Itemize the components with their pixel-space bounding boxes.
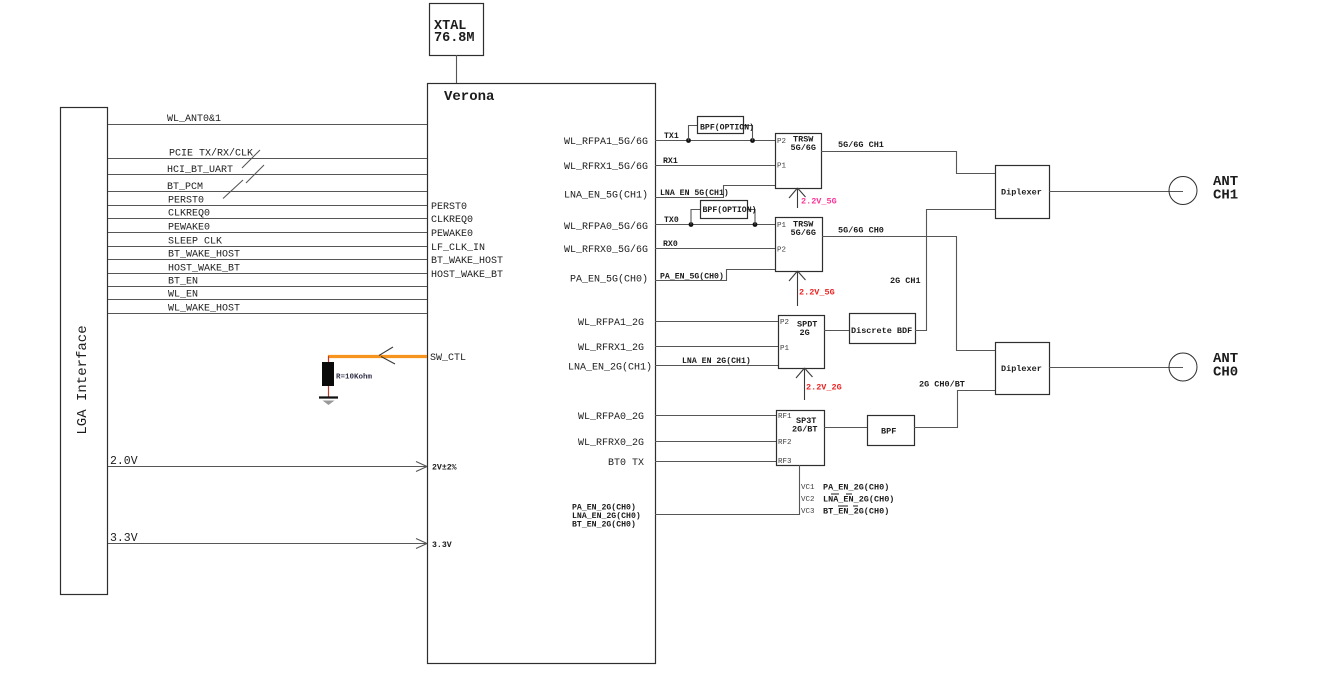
wire BPF option 1 right stub bbox=[744, 126, 753, 141]
svg-text:PEWAKE0: PEWAKE0 bbox=[431, 229, 473, 240]
wire LNA EN 5G(CH1) bbox=[655, 186, 775, 199]
ground GND bbox=[319, 398, 338, 406]
svg-text:P1: P1 bbox=[777, 163, 787, 171]
junction dot TX1 a bbox=[686, 138, 691, 143]
svg-text:PEWAKE0: PEWAKE0 bbox=[168, 223, 210, 234]
svg-text:BT_EN_2G(CH0): BT_EN_2G(CH0) bbox=[823, 507, 889, 517]
svg-text:WL_RFRX1_5G/6G: WL_RFRX1_5G/6G bbox=[564, 161, 648, 173]
svg-text:LNA_EN_2G(CH1): LNA_EN_2G(CH1) bbox=[568, 362, 652, 374]
pin label PA_EN_2G(CH0) group bbox=[572, 503, 641, 530]
wire 2G CH0/BT bbox=[914, 380, 995, 428]
junction dot TX0 a bbox=[689, 222, 694, 227]
svg-text:HOST_WAKE_BT: HOST_WAKE_BT bbox=[431, 270, 503, 281]
wire CLKREQ0 bbox=[108, 209, 427, 220]
antenna port ANT CH0 bbox=[1169, 351, 1238, 381]
svg-text:BT_EN: BT_EN bbox=[168, 277, 198, 288]
wire SP3T to BPF bbox=[824, 427, 867, 429]
wire SLEEP CLK bbox=[108, 237, 427, 248]
wire BT0 TX bbox=[655, 461, 776, 463]
wire 2G CH1 bbox=[890, 210, 995, 331]
resistor R1 10Kohm bbox=[322, 356, 373, 397]
svg-text:2G CH1: 2G CH1 bbox=[890, 276, 921, 286]
svg-text:LNA EN 5G(CH1): LNA EN 5G(CH1) bbox=[660, 188, 729, 198]
svg-text:BT_PCM: BT_PCM bbox=[167, 182, 203, 193]
svg-text:SLEEP CLK: SLEEP CLK bbox=[168, 237, 222, 248]
svg-text:HOST_WAKE_BT: HOST_WAKE_BT bbox=[168, 264, 240, 275]
filter FL2 BPF(OPTION) bbox=[701, 201, 757, 219]
svg-text:2.2V_5G: 2.2V_5G bbox=[801, 197, 837, 207]
svg-text:VC3: VC3 bbox=[801, 508, 815, 516]
wire 2.0V rail bbox=[108, 455, 457, 473]
wire PEWAKE0 bbox=[108, 223, 427, 234]
svg-text:BT_WAKE_HOST: BT_WAKE_HOST bbox=[168, 250, 240, 261]
svg-text:RX0: RX0 bbox=[663, 240, 678, 249]
svg-text:WL_RFPA0_2G: WL_RFPA0_2G bbox=[578, 412, 644, 423]
svg-text:P1: P1 bbox=[780, 345, 790, 353]
wire Diplexer ch1 to ANT CH1 bbox=[1049, 191, 1183, 193]
svg-text:BPF: BPF bbox=[881, 427, 896, 437]
svg-text:WL_EN: WL_EN bbox=[168, 290, 198, 301]
wire BT_WAKE_HOST bbox=[108, 250, 427, 261]
wire VC bundle bbox=[655, 465, 800, 515]
svg-text:TX1: TX1 bbox=[664, 132, 679, 141]
wire WL_RFPA1_2G bbox=[655, 321, 778, 323]
svg-text:WL_WAKE_HOST: WL_WAKE_HOST bbox=[168, 304, 240, 315]
wire 5G/6G CH0 bbox=[822, 226, 995, 351]
chip U1 Verona bbox=[428, 84, 656, 664]
svg-text:WL_RFPA1_2G: WL_RFPA1_2G bbox=[578, 318, 644, 329]
filter U7 Diplexer ch0 bbox=[996, 343, 1050, 395]
svg-text:2G/BT: 2G/BT bbox=[792, 425, 818, 435]
svg-text:WL_RFRX1_2G: WL_RFRX1_2G bbox=[578, 343, 644, 354]
svg-text:P2: P2 bbox=[777, 138, 786, 146]
svg-text:LNA_EN_2G(CH0): LNA_EN_2G(CH0) bbox=[572, 511, 641, 521]
wire TX0 bbox=[655, 216, 775, 225]
svg-text:P2: P2 bbox=[777, 247, 786, 255]
svg-text:2.2V_2G: 2.2V_2G bbox=[806, 383, 842, 393]
svg-text:LNA_EN_2G(CH0): LNA_EN_2G(CH0) bbox=[823, 495, 894, 505]
svg-text:PCIE TX/RX/CLK: PCIE TX/RX/CLK bbox=[169, 148, 253, 160]
svg-text:WL_ANT0&1: WL_ANT0&1 bbox=[167, 114, 221, 125]
svg-text:HCI_BT_UART: HCI_BT_UART bbox=[167, 165, 233, 176]
wire WL_RFRX0_2G bbox=[655, 441, 776, 443]
svg-text:5G/6G: 5G/6G bbox=[791, 143, 817, 153]
supply arrow 2.2V_5G ch0 bbox=[789, 271, 835, 306]
wire SW_CTL orange bbox=[328, 347, 466, 364]
svg-text:VC2: VC2 bbox=[801, 496, 815, 504]
wire SPDT to Discrete BDF bbox=[824, 330, 849, 332]
svg-text:WL_RFRX0_5G/6G: WL_RFRX0_5G/6G bbox=[564, 244, 648, 256]
svg-text:PERST0: PERST0 bbox=[168, 196, 204, 207]
svg-text:2.2V_5G: 2.2V_5G bbox=[799, 288, 835, 298]
svg-text:Discrete BDF: Discrete BDF bbox=[851, 326, 912, 336]
wire WL_RFPA0_2G bbox=[655, 415, 776, 417]
svg-text:Diplexer: Diplexer bbox=[1001, 364, 1042, 374]
svg-text:LNA EN 2G(CH1): LNA EN 2G(CH1) bbox=[682, 356, 751, 366]
wire BT_PCM bbox=[108, 180, 427, 199]
svg-text:P2: P2 bbox=[780, 319, 789, 327]
svg-text:VC1: VC1 bbox=[801, 484, 815, 492]
filter FL1 BPF(OPTION) bbox=[698, 117, 755, 134]
svg-text:CLKREQ0: CLKREQ0 bbox=[168, 209, 210, 220]
wire HOST_WAKE_BT bbox=[108, 264, 427, 275]
svg-text:RX1: RX1 bbox=[663, 157, 678, 166]
svg-text:BT0 TX: BT0 TX bbox=[608, 458, 644, 469]
svg-text:P1: P1 bbox=[777, 222, 787, 230]
svg-text:BT_EN_2G(CH0): BT_EN_2G(CH0) bbox=[572, 520, 636, 530]
svg-text:WL_RFRX0_2G: WL_RFRX0_2G bbox=[578, 438, 644, 449]
svg-text:CLKREQ0: CLKREQ0 bbox=[431, 215, 473, 226]
net label LNA_EN_2G(CH0) bbox=[823, 494, 894, 505]
svg-text:LGA Interface: LGA Interface bbox=[75, 325, 91, 434]
svg-text:BPF(OPTION): BPF(OPTION) bbox=[700, 123, 754, 133]
svg-text:PA_EN_5G(CH0): PA_EN_5G(CH0) bbox=[570, 274, 648, 286]
supply arrow 2.2V_5G ch1 bbox=[789, 188, 837, 208]
wire LNA EN 2G(CH1) bbox=[655, 356, 778, 366]
wire XTAL to Verona bbox=[456, 55, 458, 83]
filter U6 Diplexer ch1 bbox=[996, 166, 1050, 219]
wire Diplexer ch0 to ANT CH0 bbox=[1049, 367, 1183, 369]
junction dot TX1 b bbox=[750, 138, 755, 143]
wire BPF option 1 left stub bbox=[689, 126, 699, 141]
svg-text:3.3V: 3.3V bbox=[110, 532, 138, 545]
svg-text:WL_RFPA0_5G/6G: WL_RFPA0_5G/6G bbox=[564, 221, 648, 233]
wire PERST0 bbox=[108, 196, 427, 207]
svg-text:Diplexer: Diplexer bbox=[1001, 188, 1042, 198]
junction dot TX0 b bbox=[753, 222, 758, 227]
wire RX1 bbox=[655, 157, 775, 166]
svg-text:CH1: CH1 bbox=[1213, 188, 1238, 204]
svg-text:2G: 2G bbox=[800, 328, 810, 338]
svg-text:LNA_EN_5G(CH1): LNA_EN_5G(CH1) bbox=[564, 190, 648, 202]
wire PA_EN_5G(CH0) bbox=[655, 270, 775, 282]
svg-text:WL_RFPA1_5G/6G: WL_RFPA1_5G/6G bbox=[564, 136, 648, 148]
wire WL_ANT0&1 bbox=[108, 114, 427, 125]
svg-text:R=10Kohm: R=10Kohm bbox=[336, 374, 373, 382]
svg-text:RF2: RF2 bbox=[778, 439, 792, 447]
svg-text:76.8M: 76.8M bbox=[434, 31, 475, 46]
svg-text:LF_CLK_IN: LF_CLK_IN bbox=[431, 243, 485, 254]
net label BT_EN_2G(CH0) bbox=[823, 506, 889, 517]
svg-text:PA_EN_2G(CH0): PA_EN_2G(CH0) bbox=[572, 503, 636, 513]
svg-text:PA_EN_5G(CH0): PA_EN_5G(CH0) bbox=[660, 272, 724, 282]
wire 5G/6G CH1 bbox=[821, 140, 995, 174]
supply arrow 2.2V_2G bbox=[796, 368, 842, 400]
svg-text:2V±2%: 2V±2% bbox=[432, 464, 457, 473]
svg-text:SW_CTL: SW_CTL bbox=[430, 353, 466, 364]
svg-text:RF3: RF3 bbox=[778, 458, 792, 466]
antenna port ANT CH1 bbox=[1169, 174, 1238, 205]
svg-text:BT_WAKE_HOST: BT_WAKE_HOST bbox=[431, 256, 503, 267]
wire BPF option 2 right stub bbox=[748, 210, 756, 225]
svg-text:2G CH0/BT: 2G CH0/BT bbox=[919, 380, 965, 390]
svg-text:5G/6G: 5G/6G bbox=[791, 228, 817, 238]
svg-text:TX0: TX0 bbox=[664, 216, 679, 225]
wire 3.3V rail bbox=[108, 532, 452, 550]
svg-text:PERST0: PERST0 bbox=[431, 202, 467, 213]
wire TX1 bbox=[655, 132, 775, 141]
wire HCI_BT_UART bbox=[108, 165, 427, 183]
wire BPF option 2 left stub bbox=[691, 210, 700, 225]
svg-text:Verona: Verona bbox=[444, 89, 495, 105]
svg-text:RF1: RF1 bbox=[778, 413, 792, 421]
wire BT_EN bbox=[108, 277, 427, 288]
svg-text:PA_EN_2G(CH0): PA_EN_2G(CH0) bbox=[823, 483, 889, 493]
wire WL_RFRX1_2G bbox=[655, 346, 778, 348]
svg-text:BPF(OPTION): BPF(OPTION) bbox=[703, 205, 757, 215]
wire WL_WAKE_HOST bbox=[108, 304, 427, 315]
switch U4 SPDT 2G bbox=[779, 316, 825, 369]
svg-text:CH0: CH0 bbox=[1213, 365, 1238, 381]
switch U5 SP3T 2G/BT bbox=[777, 411, 825, 467]
crystal X1 box bbox=[430, 4, 484, 56]
connector J1 LGA Interface bbox=[61, 108, 108, 595]
svg-text:2.0V: 2.0V bbox=[110, 455, 138, 468]
wire PCIE TX/RX/CLK bbox=[108, 148, 427, 169]
filter FL4 BPF bbox=[868, 416, 915, 446]
svg-text:3.3V: 3.3V bbox=[432, 541, 452, 550]
wire WL_EN bbox=[108, 290, 427, 301]
wire RX0 bbox=[655, 240, 775, 249]
svg-text:5G/6G CH1: 5G/6G CH1 bbox=[838, 140, 884, 150]
filter FL3 Discrete BDF bbox=[850, 314, 916, 344]
switch U2 TRSW 5G/6G ch1 bbox=[776, 134, 822, 189]
svg-text:5G/6G CH0: 5G/6G CH0 bbox=[838, 226, 884, 236]
switch U3 TRSW 5G/6G ch0 bbox=[776, 218, 823, 272]
